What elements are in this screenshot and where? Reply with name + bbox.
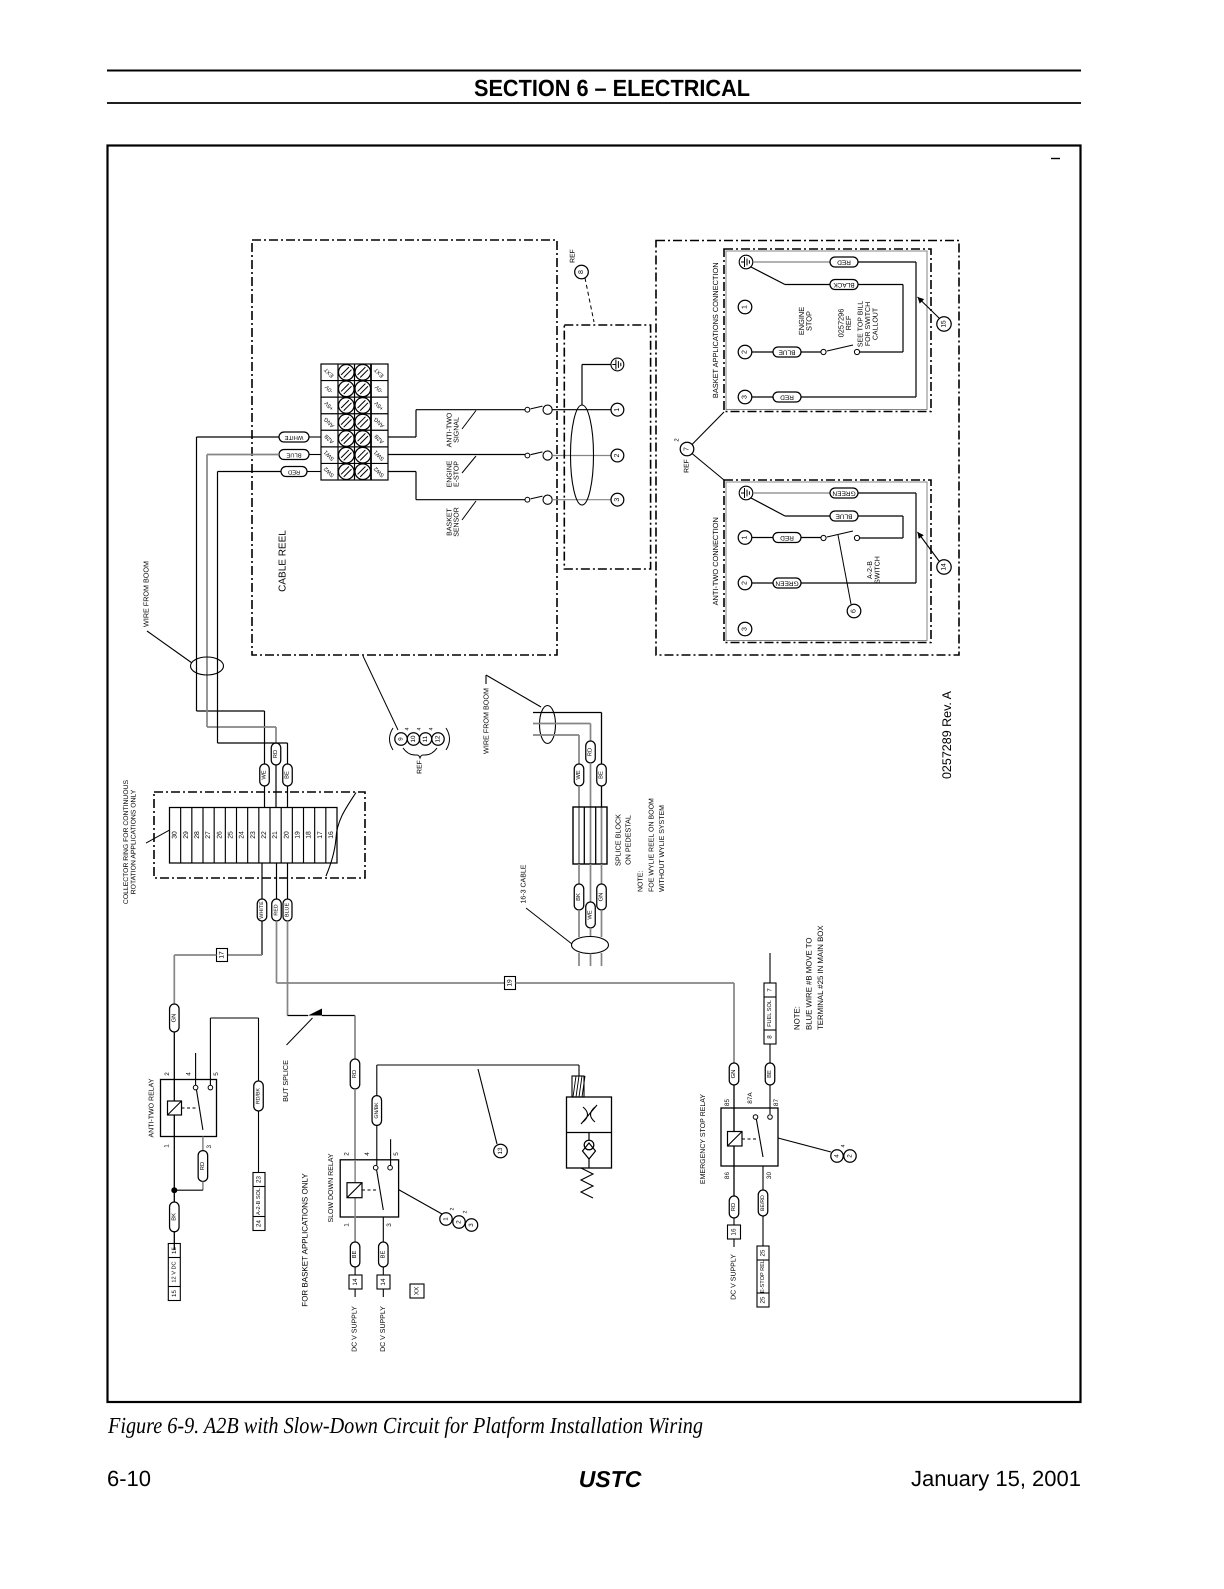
svg-text:BASKET: BASKET xyxy=(447,507,454,535)
svg-text:NOTE:: NOTE: xyxy=(793,1006,802,1030)
svg-text:4: 4 xyxy=(405,727,411,730)
svg-text:85: 85 xyxy=(724,1099,731,1107)
svg-text:15: 15 xyxy=(171,1247,178,1254)
svg-text:ROTATION APPLICATIONS ONLY: ROTATION APPLICATIONS ONLY xyxy=(131,789,138,894)
svg-text:6-10: 6-10 xyxy=(107,1466,151,1491)
svg-text:87A: 87A xyxy=(747,1092,754,1104)
svg-text:21: 21 xyxy=(272,831,279,839)
svg-text:2: 2 xyxy=(164,1072,171,1076)
svg-text:WE: WE xyxy=(576,770,582,779)
svg-text:BUT SPLICE: BUT SPLICE xyxy=(281,1060,290,1102)
svg-text:15: 15 xyxy=(941,320,948,328)
svg-text:7: 7 xyxy=(684,447,691,451)
svg-text:3: 3 xyxy=(742,627,749,631)
svg-text:RED: RED xyxy=(274,904,280,915)
svg-text:10: 10 xyxy=(410,735,417,742)
svg-text:EMERGENCY STOP RELAY: EMERGENCY STOP RELAY xyxy=(700,1094,707,1184)
svg-text:WHITE: WHITE xyxy=(285,434,304,440)
svg-text:16: 16 xyxy=(731,1228,738,1236)
svg-text:BLUE: BLUE xyxy=(778,349,796,356)
svg-text:BLUE: BLUE xyxy=(286,452,301,458)
svg-text:STOP: STOP xyxy=(805,311,814,331)
svg-text:30: 30 xyxy=(172,831,179,839)
svg-text:14: 14 xyxy=(380,1278,387,1286)
svg-text:SWITCH: SWITCH xyxy=(875,556,882,584)
svg-text:2: 2 xyxy=(344,1152,351,1156)
svg-text:BLUE: BLUE xyxy=(835,513,853,520)
svg-text:23: 23 xyxy=(256,1176,263,1183)
svg-text:GN/BK: GN/BK xyxy=(374,1102,380,1119)
svg-text:ENGINE: ENGINE xyxy=(447,460,454,487)
svg-text:25: 25 xyxy=(760,1249,767,1256)
svg-text:BLACK: BLACK xyxy=(833,281,855,288)
svg-text:SEE TOP BILL: SEE TOP BILL xyxy=(858,301,865,347)
svg-text:BE: BE xyxy=(352,1251,358,1259)
svg-text:4: 4 xyxy=(429,727,435,730)
svg-text:BE: BE xyxy=(599,771,605,779)
svg-text:9: 9 xyxy=(398,737,405,741)
svg-text:RED: RED xyxy=(837,259,851,266)
svg-text:0257289 Rev. A: 0257289 Rev. A xyxy=(940,690,954,779)
svg-text:A-2-B SOL: A-2-B SOL xyxy=(256,1188,262,1215)
svg-text:12 V DC: 12 V DC xyxy=(171,1261,177,1282)
svg-text:A-2-B: A-2-B xyxy=(867,561,874,579)
svg-text:1: 1 xyxy=(742,305,749,309)
svg-text:2: 2 xyxy=(742,350,749,354)
svg-text:FOR BASKET APPLICATIONS ONLY: FOR BASKET APPLICATIONS ONLY xyxy=(301,1173,310,1307)
svg-text:16-3 CABLE: 16-3 CABLE xyxy=(521,864,528,903)
svg-text:1: 1 xyxy=(344,1223,351,1227)
svg-text:19: 19 xyxy=(294,831,301,839)
svg-text:RED: RED xyxy=(288,469,300,475)
svg-text:24: 24 xyxy=(239,831,246,839)
svg-text:RD: RD xyxy=(352,1070,358,1078)
svg-text:BE: BE xyxy=(380,1251,386,1259)
svg-text:WIRE FROM BOOM: WIRE FROM BOOM xyxy=(482,688,491,754)
svg-text:28: 28 xyxy=(194,831,201,839)
svg-text:REF: REF xyxy=(417,760,424,774)
svg-text:12: 12 xyxy=(435,735,442,742)
svg-text:BE: BE xyxy=(285,771,291,779)
svg-text:2: 2 xyxy=(463,1210,469,1213)
svg-text:SENSOR: SENSOR xyxy=(454,507,461,537)
svg-text:17: 17 xyxy=(219,951,226,959)
svg-text:SPLICE BLOCK: SPLICE BLOCK xyxy=(614,814,623,866)
svg-text:RD: RD xyxy=(731,1203,737,1211)
svg-text:2: 2 xyxy=(847,1154,854,1158)
svg-text:CABLE REEL: CABLE REEL xyxy=(278,530,289,592)
svg-text:14: 14 xyxy=(352,1278,359,1286)
svg-text:8: 8 xyxy=(578,270,585,274)
svg-text:RED: RED xyxy=(780,394,794,401)
svg-text:1: 1 xyxy=(443,1217,450,1221)
svg-text:BK: BK xyxy=(171,1213,177,1221)
svg-text:ON PEDESTAL: ON PEDESTAL xyxy=(624,815,633,865)
svg-text:WIRE FROM BOOM: WIRE FROM BOOM xyxy=(142,561,151,627)
svg-text:7: 7 xyxy=(767,988,774,992)
svg-text:RD: RD xyxy=(588,748,594,756)
svg-text:WE: WE xyxy=(588,910,594,919)
svg-text:ANTI-TWO CONNECTION: ANTI-TWO CONNECTION xyxy=(711,517,720,605)
svg-text:86: 86 xyxy=(724,1172,731,1180)
svg-text:17: 17 xyxy=(317,831,324,839)
svg-text:SLOW DOWN RELAY: SLOW DOWN RELAY xyxy=(328,1153,335,1222)
svg-text:FUEL SOL: FUEL SOL xyxy=(767,1000,773,1027)
svg-text:GREEN: GREEN xyxy=(832,490,855,497)
svg-text:25: 25 xyxy=(760,1296,767,1303)
svg-text:Figure 6-9. A2B with Slow-Down: Figure 6-9. A2B with Slow-Down Circuit f… xyxy=(107,1413,703,1438)
svg-text:E-STOP: E-STOP xyxy=(454,461,461,487)
svg-text:GN: GN xyxy=(170,1014,177,1023)
svg-text:WHITE: WHITE xyxy=(259,901,265,919)
svg-text:4: 4 xyxy=(186,1072,193,1076)
svg-text:5: 5 xyxy=(393,1152,400,1156)
svg-text:25: 25 xyxy=(227,831,234,839)
svg-text:26: 26 xyxy=(216,831,223,839)
svg-text:SIGNAL: SIGNAL xyxy=(454,417,461,443)
svg-text:ANTI-TWO: ANTI-TWO xyxy=(447,412,454,447)
svg-text:20: 20 xyxy=(283,831,290,839)
svg-text:11: 11 xyxy=(422,735,429,742)
svg-text:3: 3 xyxy=(386,1223,393,1227)
svg-text:BLUE WIRE #B MOVE TO: BLUE WIRE #B MOVE TO xyxy=(805,938,814,1030)
svg-text:SECTION 6 – ELECTRICAL: SECTION 6 – ELECTRICAL xyxy=(474,75,750,101)
svg-text:REF: REF xyxy=(844,315,853,330)
svg-text:4: 4 xyxy=(417,727,423,730)
svg-text:DC V SUPPLY: DC V SUPPLY xyxy=(380,1306,387,1352)
svg-text:BLUE: BLUE xyxy=(285,903,291,917)
svg-text:18: 18 xyxy=(306,831,313,839)
svg-text:14: 14 xyxy=(941,563,948,571)
svg-text:1: 1 xyxy=(164,1144,171,1148)
svg-text:19: 19 xyxy=(507,979,514,987)
svg-text:3: 3 xyxy=(206,1144,213,1148)
svg-text:29: 29 xyxy=(183,831,190,839)
svg-text:ANTI-TWO RELAY: ANTI-TWO RELAY xyxy=(149,1078,156,1137)
svg-text:COLLECTOR RING FOR CONTINUOUS: COLLECTOR RING FOR CONTINUOUS xyxy=(123,779,130,904)
svg-text:XX: XX xyxy=(414,1286,421,1295)
svg-text:24: 24 xyxy=(256,1220,263,1227)
svg-text:1: 1 xyxy=(614,408,621,412)
svg-text:BASKET APPLICATIONS CONNECTION: BASKET APPLICATIONS CONNECTION xyxy=(711,262,720,398)
svg-text:GREEN: GREEN xyxy=(775,580,798,587)
svg-text:3: 3 xyxy=(614,498,621,502)
svg-text:3: 3 xyxy=(742,395,749,399)
svg-text:GN: GN xyxy=(730,1070,737,1079)
svg-text:15: 15 xyxy=(171,1290,178,1297)
svg-text:27: 27 xyxy=(205,831,212,839)
svg-text:FOE WYLIE REEL ON BOOM: FOE WYLIE REEL ON BOOM xyxy=(649,798,656,892)
svg-text:4: 4 xyxy=(364,1152,371,1156)
svg-text:6: 6 xyxy=(851,609,858,613)
svg-text:NOTE:: NOTE: xyxy=(638,871,645,892)
svg-text:22: 22 xyxy=(261,831,268,839)
svg-text:BE: BE xyxy=(767,1070,773,1078)
svg-text:TERMINAL #25 IN MAIN BOX: TERMINAL #25 IN MAIN BOX xyxy=(816,925,825,1030)
svg-text:4: 4 xyxy=(841,1144,847,1147)
svg-text:GN: GN xyxy=(598,893,605,902)
svg-text:RD: RD xyxy=(200,1162,206,1170)
svg-text:BE/RD: BE/RD xyxy=(760,1195,766,1211)
svg-text:2: 2 xyxy=(742,581,749,585)
svg-text:2: 2 xyxy=(614,453,621,457)
svg-text:3: 3 xyxy=(468,1223,475,1227)
svg-text:RD/BK: RD/BK xyxy=(256,1088,262,1104)
svg-text:REF: REF xyxy=(684,459,691,473)
svg-text:87: 87 xyxy=(773,1099,780,1107)
svg-text:13: 13 xyxy=(497,1147,504,1154)
svg-text:CALLOUT: CALLOUT xyxy=(873,307,880,340)
svg-text:16: 16 xyxy=(328,831,335,839)
svg-text:RED: RED xyxy=(780,534,794,541)
svg-text:5: 5 xyxy=(213,1072,220,1076)
svg-text:January 15, 2001: January 15, 2001 xyxy=(911,1466,1081,1491)
svg-text:30: 30 xyxy=(766,1172,773,1180)
svg-text:23: 23 xyxy=(250,831,257,839)
svg-text:FOR SWITCH: FOR SWITCH xyxy=(865,302,872,346)
svg-text:BK: BK xyxy=(576,893,582,901)
svg-text:2: 2 xyxy=(456,1220,463,1224)
svg-text:8: 8 xyxy=(767,1035,774,1039)
svg-text:USTC: USTC xyxy=(579,1466,642,1492)
svg-text:DC V SUPPLY: DC V SUPPLY xyxy=(352,1306,359,1352)
svg-text:E-STOP REL: E-STOP REL xyxy=(760,1260,766,1293)
svg-text:WE: WE xyxy=(262,770,268,779)
svg-text:2: 2 xyxy=(450,1207,456,1210)
svg-text:1: 1 xyxy=(742,535,749,539)
svg-text:REF: REF xyxy=(570,249,577,263)
svg-text:DC V SUPPLY: DC V SUPPLY xyxy=(731,1254,738,1300)
svg-text:RD: RD xyxy=(273,750,279,758)
svg-text:4: 4 xyxy=(834,1154,841,1158)
svg-text:WITHOUT WYLIE SYSTEM: WITHOUT WYLIE SYSTEM xyxy=(659,805,666,892)
